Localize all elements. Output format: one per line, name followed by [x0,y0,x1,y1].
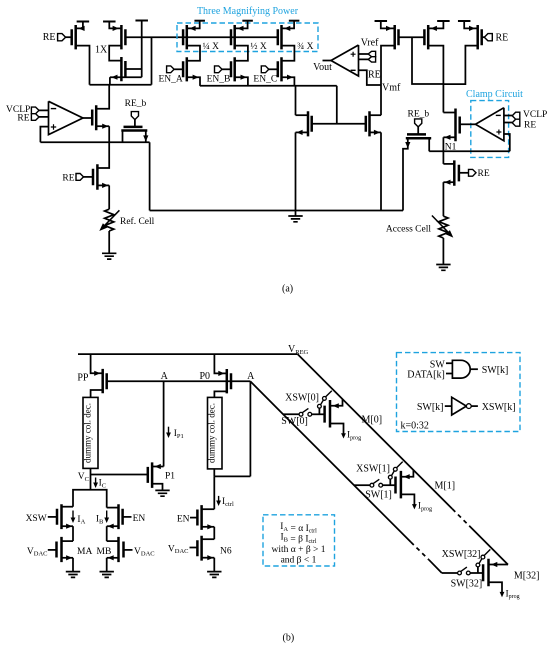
arrow N11 right lead [143,135,148,141]
transistor MENB (EN_B switch) [231,57,235,81]
wire MB drain lead [107,540,119,542]
wire P6 gate lead to RE pin [482,36,485,38]
wire XSW[1] junction stub [389,479,391,485]
wire M1 source lead to VDD [76,22,83,29]
wire AND input leads [446,363,452,373]
wire M[1] drain lead to bus [401,470,414,477]
svg-text:XSW[0]: XSW[0] [285,392,319,403]
svg-text:Clamp Circuit: Clamp Circuit [466,89,523,100]
wire PP drain to dummy block 1 [91,390,103,397]
transistor N11 (equalize pass left) [121,127,147,131]
svg-text:MB: MB [97,547,112,557]
wire N5 diode connection (bus to gate line) [336,86,338,124]
wire MA source to ground [72,558,74,572]
svg-text:Vmf: Vmf [382,82,401,93]
arrow MB source [108,555,114,560]
svg-text:Vref: Vref [361,38,379,49]
arrow N6b source [207,555,213,560]
pin RE (clamp right) [512,119,520,126]
wire node A2 down to Ictrl node [249,381,251,476]
transistor N12 (RE sense left) [93,164,97,189]
wire XSW[1] to bus [397,462,403,468]
wire P4-P5 gate line [399,36,425,38]
wire U1 input pin leads [39,110,49,117]
wire U3 plus feedback to N1 line [504,134,510,151]
svg-text:PP: PP [77,372,89,383]
wire P0 drain to dummy block 2 [214,391,226,397]
wire MPB drain to EN_B drain (C-link) [235,46,248,61]
wire XSW[0] to bus [326,391,332,397]
ground (N6) [207,572,221,578]
box current equations (dashed) [263,515,335,566]
op-amp U1 (clamp left) [49,101,83,134]
box Three Magnifying Power (dashed) [177,23,318,52]
arrow PP source [94,371,100,376]
arrow MA source [66,555,72,560]
arrow P4 source [386,26,392,31]
wire VC to P1 gate [91,474,148,476]
svg-text:N6: N6 [220,547,232,557]
arrow N10 source [102,124,108,129]
wire N12 drain lead up to equalize node [97,142,109,168]
transistor MA [57,537,62,562]
switch XSW[0] contact lower [318,404,322,408]
wire N9 source down to Access Cell [442,182,444,216]
wire NEN gate lead [190,517,197,519]
wire XSW[32] junction stub [477,567,479,573]
svg-text:SW[k]: SW[k] [482,365,509,376]
wire M3 source down to 1X node bus [109,77,111,85]
wire EN_B gate lead [222,68,231,70]
wire N6a source lead [370,131,382,133]
arrow P0 source [218,371,224,376]
wire VREG rail [78,353,298,355]
svg-text:RE: RE [17,113,29,123]
wire M2 source lead to VDD [109,22,121,29]
wire MPC source lead to VDD [282,21,295,29]
wire N5 source down to ground bus [295,132,297,210]
wire P1 drain lead [152,466,164,468]
ground (Access Cell) [436,265,450,271]
svg-text:Access Cell: Access Cell [386,224,431,234]
arrow M[32] source (PMOS style) [491,562,497,567]
svg-text:RE: RE [43,32,56,43]
pin VCLP (left) [31,107,39,114]
wire VREG diagonal bus (dashed gap) [452,509,469,526]
wire N6a drain lead up to Vmf [370,114,382,116]
svg-text:EN_A: EN_A [158,75,182,85]
arrow M3 source [111,75,117,80]
wire NXB gate lead [123,516,132,518]
svg-text:SW[k]: SW[k] [417,402,444,413]
arrow current IA [71,511,76,524]
wire EN tail bus [200,85,337,87]
wire SW[32] row wire [442,572,458,574]
wire AND output lead [471,368,478,370]
pin EN_A [167,66,175,73]
wire N8 right lead to N1 [428,138,430,151]
wire mirror gate line [312,123,366,125]
transistor MPA (¼X/½X/¾X mirror PMOS) [183,25,187,49]
wire M[32] source lead with Iprog arrow [489,582,505,597]
arrow current IB [104,511,109,524]
switch XSW[32] lever [479,559,482,564]
wire N5 drain lead [296,114,309,116]
transistor NEN (EN gated, ctrl) [197,505,201,530]
arrow MENA source [193,75,199,80]
wire U3 output to N7 gate [460,123,476,125]
wire SW[1] to gate [383,484,396,486]
svg-text:SW[32]: SW[32] [451,578,483,589]
wire MB source to ground [106,558,108,572]
wire N9 source lead [443,181,454,183]
wire U1 plus feedback [40,127,48,143]
wire M[1] source lead with Iprog arrow [401,494,417,509]
transistor MPC (¼X/½X/¾X mirror PMOS) [278,25,282,49]
wire gate staircase (dashed gap) [411,542,429,560]
wire N10 drain lead up to 1X bus [96,85,109,109]
wire N1 rail mid [442,137,444,164]
arrow P1 drain (PMOS) [155,464,161,469]
svg-text:XSW[k]: XSW[k] [482,402,516,413]
wire MENB source lead down to tail bus [235,77,248,86]
wire N6b source lead [202,557,215,559]
wire MENA source lead down to tail bus [187,77,200,86]
wire VC node down from block1 [90,468,92,489]
pin RE (top-left) [58,34,66,41]
wire N12 source down to Ref Cell [108,185,110,209]
svg-text:½ X: ½ X [250,41,267,52]
wire NEN source lead [202,526,215,528]
wire ctrl rail mid [213,527,215,539]
wire P5 diode tap [412,37,443,84]
block dummy col. dec. 2 [207,397,222,469]
svg-text:MA: MA [77,547,92,557]
wire N12 source lead [97,184,109,186]
pin RE (clamp left) [31,114,39,121]
power VDD bar over M1 [77,21,90,23]
svg-text:Ref. Cell: Ref. Cell [120,216,155,227]
svg-text:with α + β > 1: with α + β > 1 [271,545,325,555]
wire N9 drain lead [443,163,454,165]
resistor Ref. Cell [105,209,114,231]
switch XSW[1] lever [392,471,395,476]
arrow M[0] source (PMOS style) [333,403,339,408]
svg-text:RE_b: RE_b [125,99,147,109]
wire MB source lead [107,557,119,559]
wire 1X gate line to magnifying branches [125,36,277,38]
pin VCLP (right) [512,112,520,119]
arrow current Ictrl [216,496,221,506]
transistor N7 (clamp NMOS right) [456,109,460,142]
transistor NXA (XSW switch NMOS) [57,504,62,529]
marker U2 minus input [351,69,356,71]
arrow P6 source [469,26,475,31]
wire N10 source lead [96,125,109,127]
wire M1 drain lead down to 1X node bus [76,46,90,85]
switch SW[0] contact right [308,412,312,416]
svg-text:DATA[k]: DATA[k] [407,370,445,381]
wire N6b gate lead [190,547,198,549]
block dummy col. dec. 1 [83,397,99,468]
wire SW[32] to gate [470,572,483,574]
op-amp U3 (clamp right) [476,108,504,141]
transistor M[1] [396,471,401,499]
switch XSW[32] contact lower [476,563,480,567]
wire N8 left lead down to ground bus [403,138,408,210]
svg-text:¼ X: ¼ X [203,42,220,52]
transistor P5 (mirror PMOS right, diode) [424,25,428,49]
wire ground stem (a) [295,211,297,217]
wire NXA source lead [62,525,74,527]
wire P1 source to ground [152,484,162,491]
ground (MB) [100,572,114,578]
wire P5 source lead to VDD [428,21,443,28]
transistor NXB (EN switch NMOS) [119,504,123,529]
wire VDD3 stem down to M3 source lead [141,21,143,78]
svg-text:RE_b: RE_b [408,110,430,120]
wire N1 horizontal line [429,150,510,152]
wire U2 output stub [323,60,332,62]
svg-text:M[0]: M[0] [362,414,383,425]
arrow MENC source [287,75,293,80]
pin EN_B [215,66,223,73]
svg-text:dummy col. dec.: dummy col. dec. [83,403,93,463]
wire U2 minus input to Vmf [359,70,382,85]
transistor P4 (mirror PMOS left) [395,25,399,49]
arrow MENB source [241,75,247,80]
wire P6 drain down to N1 junction [443,46,477,85]
wire NXA gate lead [48,516,57,518]
wire MA gate lead [48,549,57,551]
wire P4 source lead to VDD [381,21,395,28]
arrow MPC source [284,26,290,31]
wire NXB drain lead [107,507,119,509]
wire M2 drain to cascode drain (C-link) [109,46,121,61]
wire VREG diagonal bus (solid to M32) [469,526,508,565]
wire VREG diagonal bus (solid) [298,354,453,509]
transistor P1 [148,462,152,488]
power VDD bar branch B [242,20,253,22]
svg-text:¾ X: ¾ X [297,42,314,52]
svg-text:and β < 1: and β < 1 [281,555,317,565]
svg-text:RE: RE [368,70,381,81]
arrow N6a source [374,130,380,135]
wire gate staircase (solid) [250,381,410,542]
transistor N6b (VDAC ctrl) [197,536,201,561]
svg-text:N1: N1 [445,143,457,153]
marker U1 plus input [51,124,56,129]
wire P5 drain down N1 rail upper [428,46,443,113]
power VDD bar over P5 [437,20,450,22]
switch SW[1] lever [373,479,379,483]
transistor P6 (RE load PMOS far right) [478,25,482,49]
wire SW[0] row wire [283,413,299,415]
wire EN_C gate lead [269,68,278,70]
wire EN_A gate lead [174,68,183,70]
wire 1X node bus up to gate line [151,37,153,84]
wire N9 gate lead [459,172,469,174]
power VDD bar branch C [289,20,300,22]
power VDD bar over P4 [375,20,388,22]
wire gate staircase (solid to M32) [429,560,442,573]
wire U3 input pin leads [504,116,512,123]
switch SW[32] lever [461,567,467,571]
wire MENC source lead down to tail bus [282,77,295,86]
switch SW[32] contact left [458,571,462,575]
arrow NXB source [108,524,114,529]
svg-text:EN_C: EN_C [253,75,277,85]
switch XSW[0] lever [321,400,324,405]
wire N11 left lead [122,131,124,143]
arrow M2 source (PMOS) [113,26,119,31]
pin Vref lower [368,57,375,62]
wire SW[0] to gate [312,413,325,415]
arrow Ref Cell (variable) [99,210,119,231]
wire MPC drain to EN_C drain (C-link) [282,46,295,61]
wire Ictrl node horizontal [214,475,250,477]
wire P0 source stem [214,354,226,373]
resistor Access Cell [439,216,448,238]
wire Ref Cell to ground [108,231,110,253]
wire Access Cell to ground [442,238,444,265]
power VDD bar3 with stem [135,20,148,22]
switch XSW[1] contact lower [388,475,392,479]
wire N11 right lead [145,131,147,143]
ground (MA) [66,572,80,578]
switch SW[1] contact right [379,483,383,487]
pin Vref upper [368,51,375,56]
wire MA drain lead [62,540,74,542]
switch XSW[32] contact upper [481,555,485,559]
arrow current IP1 [166,427,171,438]
marker U2 plus input [351,52,356,57]
wire MA source lead [62,557,74,559]
pin RE (sense left) [76,174,84,181]
wire node A1 down to P1 drain [163,381,165,466]
svg-text:A: A [247,371,255,382]
wire equalize node horizontal (feedback/RE_b row) [40,141,149,143]
svg-text:Vout: Vout [313,62,332,73]
svg-text:dummy col. dec.: dummy col. dec. [207,403,217,463]
marker U3 plus input [496,130,501,135]
wire MB gate lead [124,549,133,551]
wire M[0] drain lead to bus [330,399,343,406]
svg-text:A: A [161,371,169,382]
wire SW[1] row wire [354,484,370,486]
wire N5 source lead [296,131,309,133]
switch XSW[1] contact upper [393,467,397,471]
transistor N9 (RE sense right) [454,160,459,185]
pin EN_C [261,66,269,73]
transistor P0 [227,369,231,393]
wire P4 drain down to Vmf node [381,46,395,116]
wire IB rail mid [106,526,108,541]
wire XSW[0] junction stub [318,408,320,414]
wire tail bus down to N5 drain [295,86,297,115]
wire M[0] source lead with Iprog arrow [330,424,346,439]
transistor MENA (EN_A switch) [183,57,187,81]
wire Vref pin leads [359,54,369,59]
wire PP gate line to node A2 [107,380,251,382]
wire N6a source down to ground bus [380,132,382,210]
arrow MPA source [189,26,195,31]
switch SW[32] contact right [466,571,470,575]
svg-text:VCLP: VCLP [523,110,547,120]
wire 1X node bus [90,84,152,86]
arrow M[1] source (PMOS style) [404,474,410,479]
arrow Access Cell (variable) [432,216,453,238]
transistor PP [103,369,107,393]
svg-text:k=0:32: k=0:32 [401,421,429,432]
wire M3 gate tap to VDD stem [125,68,141,70]
svg-text:EN: EN [177,515,190,525]
svg-text:SW[1]: SW[1] [365,490,392,501]
arrow N8 left lead [405,142,410,148]
ground (P1) [155,490,169,496]
transistor MPB (¼X/½X/¾X mirror PMOS) [231,25,235,49]
power VDD bar over M2 [103,21,116,23]
svg-text:XSW: XSW [26,514,47,524]
wire MPA source lead to VDD [187,21,200,29]
arrow P5 source [431,26,437,31]
transistor N10 (clamp NMOS left) [92,105,96,130]
wire N12 gate lead [83,176,93,178]
wire NXA drain lead [62,506,74,508]
wire RE_b right pin stem [417,127,419,134]
power VDD bar branch A [194,20,205,22]
switch SW[0] lever [302,408,308,412]
wire inverter output lead [471,405,478,407]
wire equalize right down to ground bus [149,142,151,210]
transistor N5 (mirror NMOS left, diode) [308,111,312,136]
svg-text:1X: 1X [95,45,108,56]
wire N6b source to ground [213,558,215,572]
wire M3 source lead [110,76,142,78]
ground (Ref Cell) [102,253,116,259]
gate inverter (SW[k] to XSW[k]) [452,397,467,415]
arrow N12 source [102,183,108,188]
box Clamp Circuit (dashed) [471,101,509,158]
pin RE_b (right, down) [415,119,422,127]
wire VC split to IA/IB branches [73,490,107,508]
transistor M[32] [483,559,488,587]
wire N7 source lead [443,136,455,138]
svg-text:RE: RE [524,120,536,130]
arrow N7 source [444,135,450,140]
svg-text:P0: P0 [199,371,210,382]
arrow M1 source (PMOS) [78,26,84,31]
transistor M[0] [325,400,330,428]
bubble inverter output [466,404,471,409]
wire N10 source down to equalize node [108,126,110,142]
transistor M1 (RE-gated PMOS, 1X mirror left) [72,25,76,49]
pin RE (sense right) [469,169,477,176]
wire ground bus (a) [150,210,403,212]
svg-text:RE: RE [496,33,509,44]
svg-text:M[32]: M[32] [514,571,540,582]
wire PP source stem [91,354,103,373]
pin RE_b (left, down) [131,112,138,120]
wire NEN drain lead [202,508,215,510]
arrow N9 source [444,180,450,185]
wire MPB source lead to VDD [235,21,248,29]
svg-text:(a): (a) [282,284,293,295]
transistor M2 (1X mirror right PMOS) [121,25,125,49]
wire | RE input lead to M1 gate [66,36,72,38]
svg-text:XSW[1]: XSW[1] [356,463,390,474]
wire N7 drain lead [443,112,455,114]
